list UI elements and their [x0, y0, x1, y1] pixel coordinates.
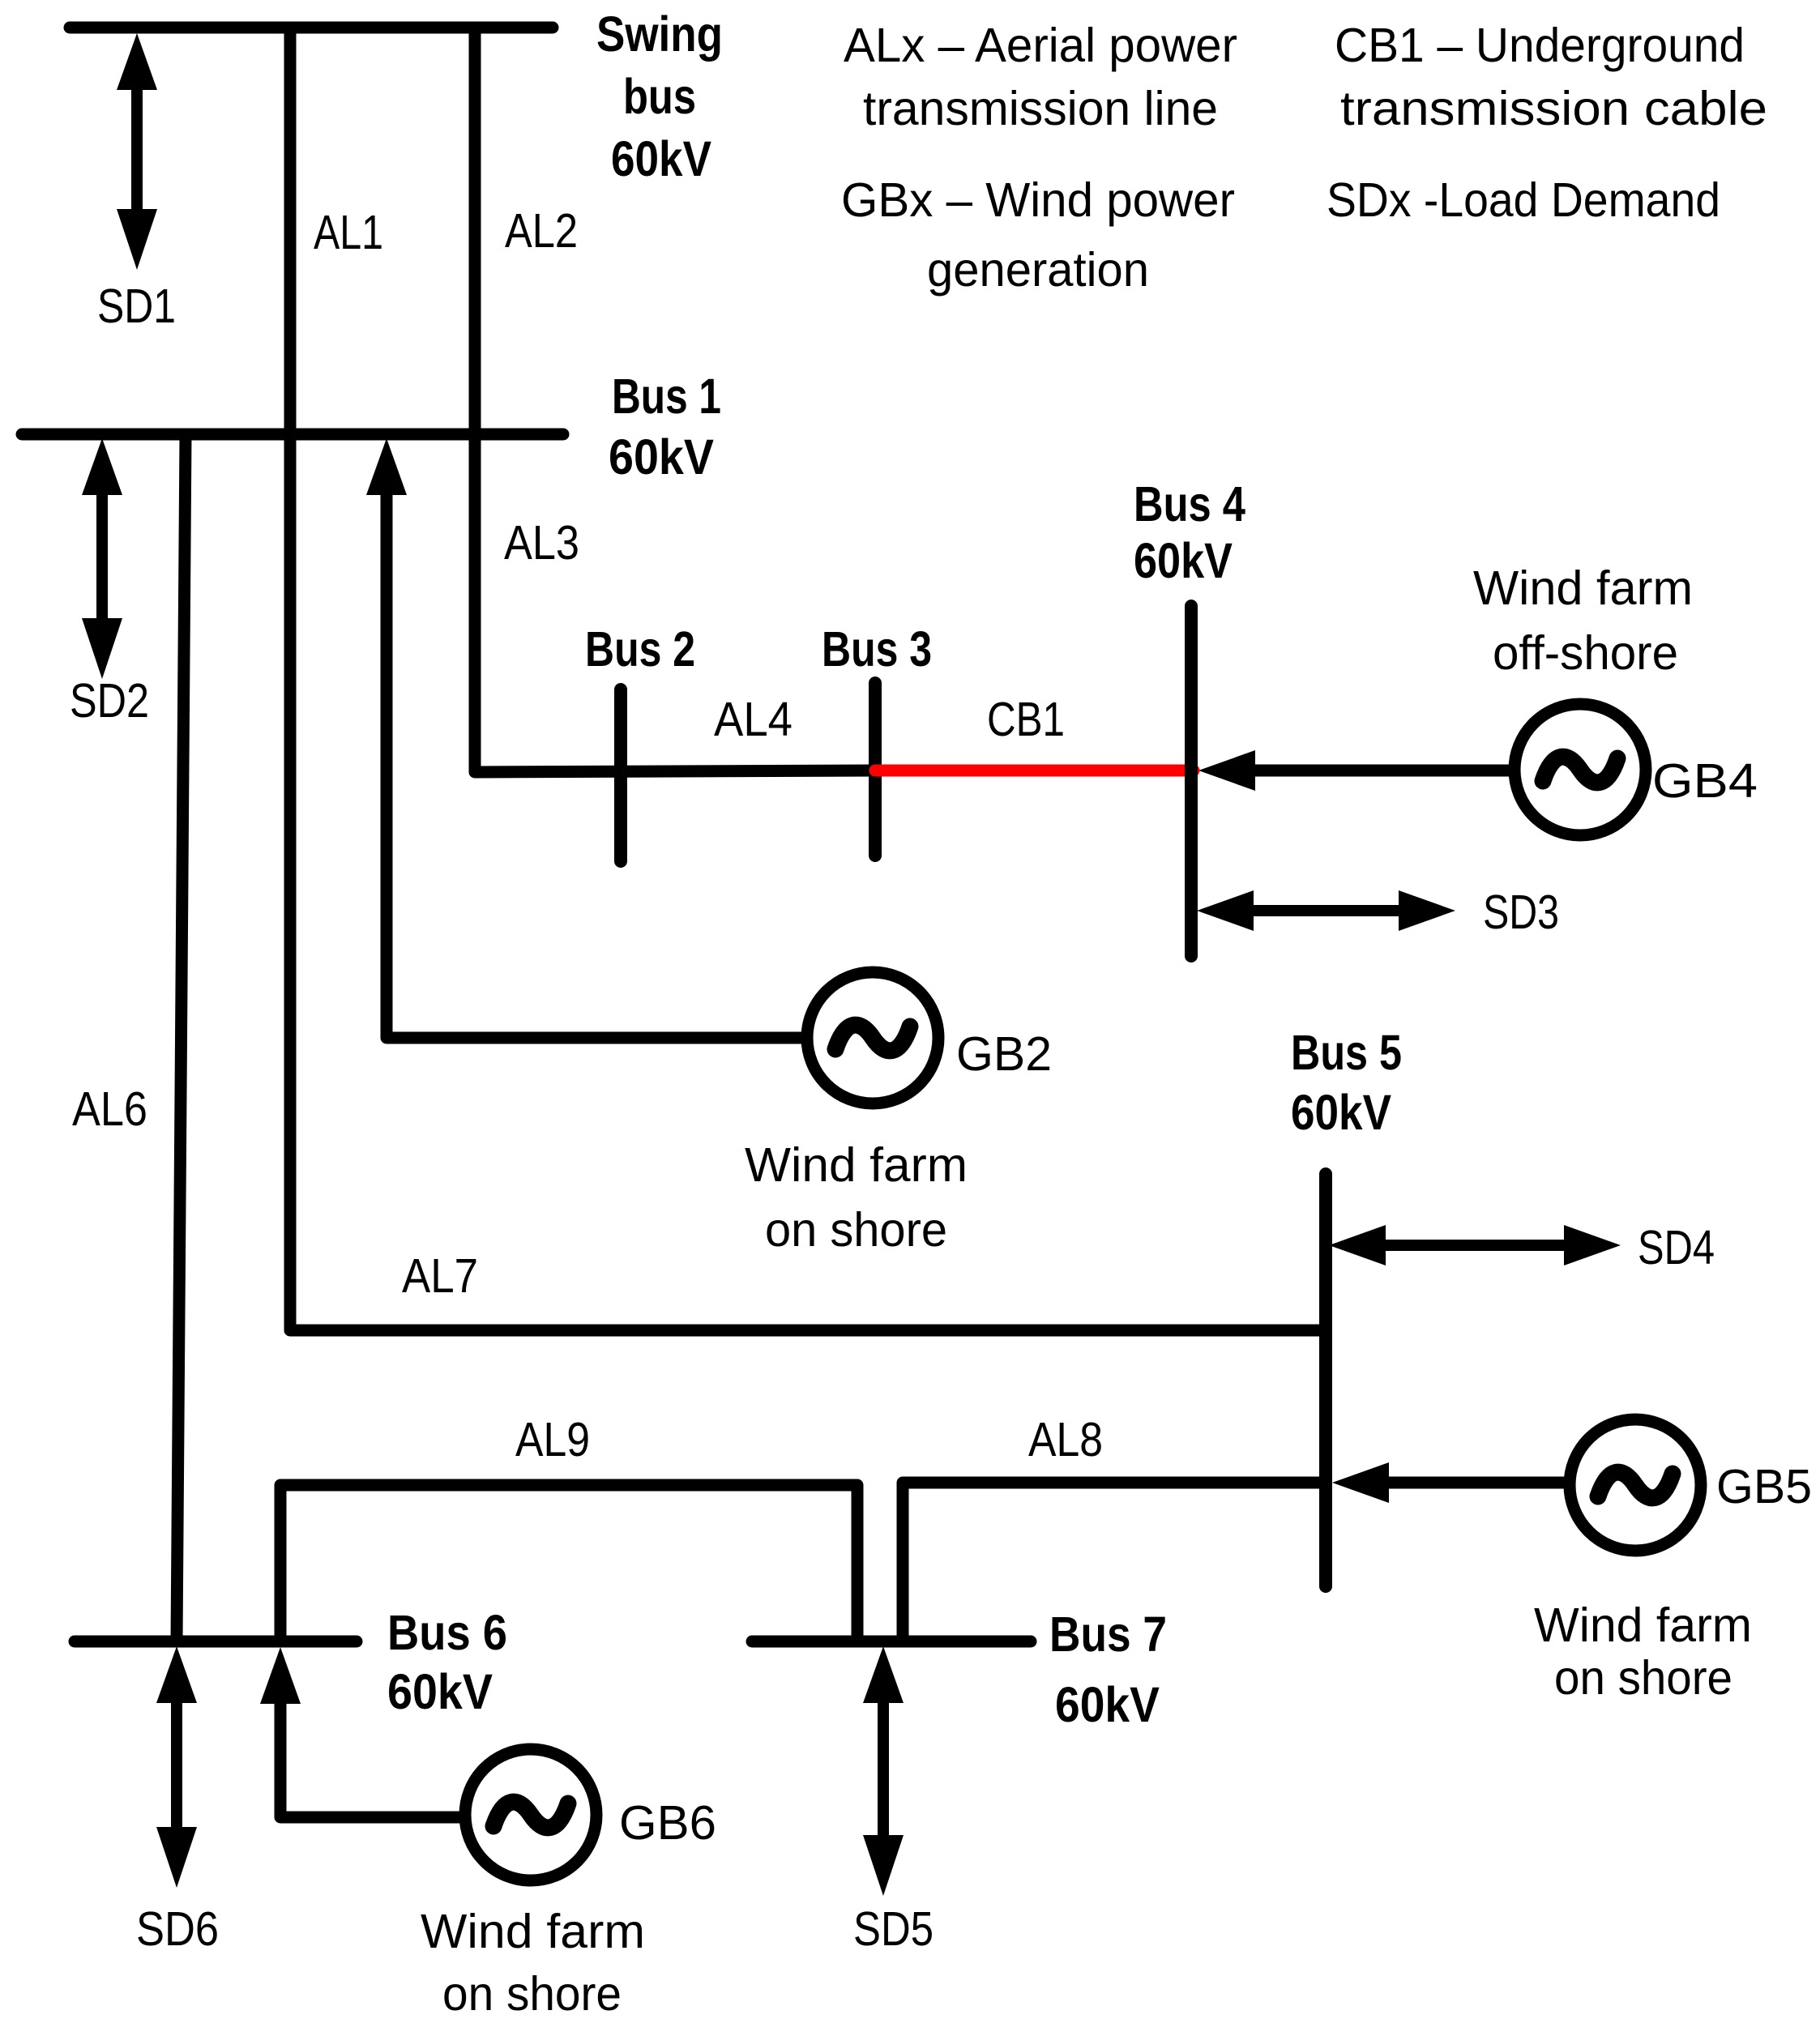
svg-text:generation: generation — [927, 243, 1149, 297]
bus 5 bar — [1319, 1174, 1332, 1586]
load SD2 double arrow — [82, 438, 122, 679]
bus 2 bar — [614, 689, 627, 861]
bus 7 label — [1049, 1607, 1167, 1732]
swing bus label — [596, 6, 723, 186]
svg-text:AL1: AL1 — [314, 206, 383, 259]
svg-text:Bus 6: Bus 6 — [387, 1605, 507, 1660]
svg-text:Bus 3: Bus 3 — [822, 621, 932, 677]
svg-text:SD4: SD4 — [1638, 1221, 1715, 1274]
generator GB4 circle — [1515, 704, 1646, 835]
legend CB1 — [1335, 19, 1767, 135]
svg-text:SD3: SD3 — [1483, 886, 1559, 939]
svg-text:Wind farm: Wind farm — [1534, 1598, 1752, 1652]
wire AL9 — [280, 1485, 857, 1641]
svg-text:Bus 2: Bus 2 — [585, 621, 695, 677]
load SD6 double arrow — [156, 1646, 197, 1888]
svg-text:GB2: GB2 — [956, 1027, 1052, 1081]
generator GB6 circle — [465, 1749, 596, 1880]
svg-text:on shore: on shore — [442, 1967, 622, 2021]
svg-text:60kV: 60kV — [1291, 1085, 1391, 1140]
label wind farm on shore (GB5) — [1534, 1598, 1752, 1705]
load SD4 double arrow — [1329, 1225, 1621, 1266]
svg-text:Bus 7: Bus 7 — [1049, 1607, 1167, 1662]
wire AL8 — [903, 1483, 1326, 1641]
bus 6 bar — [75, 1636, 357, 1648]
bus 4 label — [1134, 476, 1245, 588]
svg-text:transmission line: transmission line — [863, 82, 1218, 135]
svg-text:SD2: SD2 — [70, 674, 149, 728]
svg-text:60kV: 60kV — [1134, 533, 1233, 588]
svg-text:CB1 – Underground: CB1 – Underground — [1335, 19, 1745, 72]
svg-text:60kV: 60kV — [611, 131, 711, 186]
generator GB2 wire with arrow into bus 1 — [366, 438, 808, 1038]
swing bus bar — [70, 22, 553, 34]
label wind farm on shore (GB2) — [745, 1138, 968, 1257]
svg-text:AL4: AL4 — [714, 693, 793, 746]
svg-text:on shore: on shore — [1554, 1651, 1732, 1705]
svg-text:Bus 1: Bus 1 — [612, 369, 721, 424]
wire AL7 — [290, 434, 1326, 1330]
svg-text:transmission cable: transmission cable — [1340, 82, 1767, 135]
wire AL2 — [469, 28, 481, 434]
svg-text:AL2: AL2 — [505, 204, 578, 258]
svg-text:on shore: on shore — [765, 1203, 947, 1257]
svg-text:GB6: GB6 — [619, 1796, 716, 1850]
generator GB2 circle — [807, 972, 938, 1103]
svg-text:Swing: Swing — [596, 6, 723, 62]
svg-text:SD1: SD1 — [97, 280, 176, 333]
bus 6 label — [387, 1605, 507, 1719]
svg-text:GBx – Wind power: GBx – Wind power — [841, 173, 1235, 227]
svg-text:AL6: AL6 — [72, 1082, 147, 1136]
svg-text:Bus 5: Bus 5 — [1291, 1025, 1402, 1080]
svg-text:AL7: AL7 — [402, 1249, 478, 1303]
wire AL6 — [177, 434, 186, 1641]
svg-text:60kV: 60kV — [609, 429, 714, 484]
label wind farm off-shore — [1473, 561, 1693, 680]
legend ALx — [844, 19, 1237, 135]
wire AL3 vertical and AL4 to bus 3 — [475, 434, 875, 772]
load SD3 double arrow — [1197, 890, 1455, 931]
legend GBx — [841, 173, 1235, 297]
bus 1 bar — [22, 429, 563, 441]
svg-text:Wind farm: Wind farm — [1473, 561, 1693, 615]
generator GB6 wire with arrow into bus 6 — [260, 1647, 466, 1817]
svg-text:AL9: AL9 — [515, 1413, 590, 1466]
svg-text:GB5: GB5 — [1716, 1460, 1812, 1513]
svg-text:SDx -Load Demand: SDx -Load Demand — [1327, 173, 1720, 227]
svg-text:ALx – Aerial power: ALx – Aerial power — [844, 19, 1237, 72]
svg-text:off-shore: off-shore — [1493, 626, 1678, 680]
svg-text:AL8: AL8 — [1028, 1413, 1103, 1466]
svg-text:bus: bus — [623, 69, 696, 124]
svg-text:AL3: AL3 — [504, 516, 579, 570]
cable CB1 red — [875, 765, 1194, 777]
bus 4 bar — [1185, 606, 1198, 956]
generator GB5 wire and arrow into bus 5 — [1332, 1462, 1570, 1503]
svg-text:Bus 4: Bus 4 — [1134, 476, 1245, 531]
svg-text:GB4: GB4 — [1652, 754, 1758, 808]
bus 3 bar — [869, 683, 882, 856]
bus 1 label — [609, 369, 721, 484]
svg-text:Wind farm: Wind farm — [745, 1138, 968, 1192]
svg-text:Wind farm: Wind farm — [421, 1905, 645, 1958]
load SD5 double arrow — [863, 1646, 904, 1896]
svg-text:SD5: SD5 — [853, 1902, 933, 1956]
svg-text:60kV: 60kV — [387, 1664, 493, 1719]
generator GB5 circle — [1570, 1419, 1701, 1551]
bus 5 label — [1291, 1025, 1402, 1140]
load SD1 double arrow — [117, 33, 157, 270]
svg-text:CB1: CB1 — [987, 693, 1065, 746]
svg-text:SD6: SD6 — [136, 1902, 219, 1956]
svg-text:60kV: 60kV — [1055, 1677, 1160, 1732]
label wind farm on shore (GB6) — [421, 1905, 645, 2021]
generator GB4 wire and arrow into bus 4 — [1198, 750, 1515, 791]
wire AL1 — [284, 28, 297, 434]
bus 7 bar — [752, 1636, 1031, 1648]
